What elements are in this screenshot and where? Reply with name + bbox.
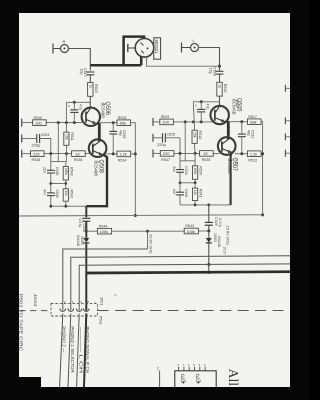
jack J-right (L channel input) xyxy=(182,43,199,53)
wire xyxy=(89,96,91,108)
capacitor C525 xyxy=(152,134,154,142)
thin wire DIN to right channel xyxy=(147,57,220,66)
svg-text:R540: R540 xyxy=(69,167,73,176)
svg-text:P501: P501 xyxy=(98,316,102,325)
ladder mid tie xyxy=(51,183,66,185)
stub page edge top xyxy=(284,85,286,92)
capacitor C513 48p xyxy=(241,122,243,134)
svg-text:4n7: 4n7 xyxy=(172,189,176,195)
capacitor C515 xyxy=(216,71,224,74)
thick wire DIN bottom stub xyxy=(140,57,143,66)
svg-text:D503: D503 xyxy=(213,234,217,242)
svg-text:100: 100 xyxy=(162,120,169,125)
junction dot right input xyxy=(218,65,221,68)
resistor R519 xyxy=(88,83,93,97)
svg-text:1N4148: 1N4148 xyxy=(76,235,80,247)
connector pins xyxy=(60,309,89,312)
resistor R544 xyxy=(86,230,97,232)
transistor Q506 xyxy=(82,108,100,126)
thick link Q505-Q507 xyxy=(227,121,230,139)
border black strips xyxy=(0,0,309,13)
svg-text:C525: C525 xyxy=(167,133,176,137)
wire left of IC box xyxy=(159,371,161,388)
resistor R533 xyxy=(235,153,248,155)
svg-text:C528: C528 xyxy=(184,189,188,197)
IC pins xyxy=(179,367,206,371)
node dots on base wire xyxy=(57,121,60,124)
svg-text:R536: R536 xyxy=(74,158,83,162)
paper background xyxy=(19,13,290,387)
transistor Q508 xyxy=(89,139,107,157)
capacitor C520 47p xyxy=(193,101,219,103)
stub input R510 xyxy=(21,119,23,127)
capacitor C533 48p xyxy=(112,123,114,132)
resistor R529 xyxy=(160,119,174,125)
svg-text:2: 2 xyxy=(157,367,159,371)
DIN label box xyxy=(154,38,161,59)
capacitor C536 xyxy=(82,217,90,219)
svg-text:68k: 68k xyxy=(250,120,256,125)
resistor R517 xyxy=(229,121,248,123)
svg-text:R527: R527 xyxy=(235,101,239,109)
ladder bottom tie right xyxy=(180,204,231,206)
svg-text:C530: C530 xyxy=(55,167,59,175)
resistor R541 vertical xyxy=(194,183,196,188)
resistor R542 vertical xyxy=(65,184,67,189)
svg-text:R538: R538 xyxy=(32,158,41,162)
stub page edge 2 xyxy=(284,117,286,124)
svg-text:BC549B: BC549B xyxy=(99,103,105,119)
capacitor C526 xyxy=(179,161,181,170)
resistor R515 xyxy=(217,82,222,96)
svg-text:0.47µ: 0.47µ xyxy=(218,218,222,227)
ladder mid tie right xyxy=(180,182,195,184)
svg-text:All: All xyxy=(226,369,241,387)
svg-text:100k: 100k xyxy=(100,229,108,234)
stub page edge 3 xyxy=(284,133,286,140)
svg-text:47p: 47p xyxy=(79,104,83,110)
resistor R534 xyxy=(106,153,117,155)
svg-text:R542: R542 xyxy=(69,190,73,199)
pin numbers xyxy=(64,300,96,305)
svg-text:15.1V: 15.1V xyxy=(222,247,226,255)
svg-text:15.8V (XX): 15.8V (XX) xyxy=(225,226,229,245)
svg-text:R544: R544 xyxy=(99,224,108,228)
capacitor C530 xyxy=(50,162,52,171)
wire jack to input corner xyxy=(69,49,91,71)
DIN connector MD501 xyxy=(128,39,154,58)
stub input R537 xyxy=(152,149,154,157)
svg-text:R513: R513 xyxy=(198,131,202,140)
svg-text:1k: 1k xyxy=(88,85,92,89)
base wire Q506 xyxy=(46,122,83,124)
wire 1 phono2 xyxy=(63,249,148,310)
svg-text:R528: R528 xyxy=(118,116,127,120)
svg-text:47p: 47p xyxy=(206,104,210,110)
resistor R511 vertical xyxy=(65,102,67,132)
svg-text:R529: R529 xyxy=(161,115,170,119)
svg-text:R515: R515 xyxy=(223,84,227,93)
wire xyxy=(219,74,221,82)
ladder top tie right xyxy=(180,160,195,162)
svg-text:R535: R535 xyxy=(202,158,211,162)
wire R544 to R543 xyxy=(112,230,185,232)
svg-text:R539: R539 xyxy=(199,166,203,175)
resistor R535 xyxy=(200,151,214,157)
svg-text:R519: R519 xyxy=(94,84,98,93)
capacitor C529 xyxy=(205,221,213,223)
svg-text:1N4148: 1N4148 xyxy=(217,236,221,248)
wire jack to input corner right xyxy=(199,48,220,71)
capacitor C524 xyxy=(21,135,23,143)
stub input R529 xyxy=(152,118,154,126)
stub page edge 4 xyxy=(284,150,286,157)
svg-text:220: 220 xyxy=(33,151,40,156)
svg-text:220: 220 xyxy=(163,151,170,156)
svg-text:1.2k: 1.2k xyxy=(250,152,257,157)
capacitor C517 xyxy=(87,72,95,75)
svg-text:R533: R533 xyxy=(248,158,257,162)
thick wire DIN loop xyxy=(90,37,144,66)
svg-text:BC549B: BC549B xyxy=(93,161,99,177)
svg-text:4n7: 4n7 xyxy=(43,190,47,196)
svg-text:12k: 12k xyxy=(64,191,68,197)
svg-text:R517: R517 xyxy=(248,115,257,119)
svg-text:C533: C533 xyxy=(122,130,126,138)
thick ground rail xyxy=(86,272,290,273)
wire node to ladder xyxy=(57,123,59,162)
svg-text:C513: C513 xyxy=(251,130,255,138)
capacitor C532 xyxy=(50,184,52,193)
svg-text:1k: 1k xyxy=(218,84,222,88)
svg-text:12k: 12k xyxy=(193,190,197,196)
wire 2 phono1 selector xyxy=(71,256,290,311)
svg-text:R541: R541 xyxy=(199,189,203,198)
capacitor C519 47p xyxy=(66,101,90,103)
wire xyxy=(219,96,221,106)
svg-text:R537: R537 xyxy=(161,158,170,162)
svg-text:C529: C529 xyxy=(214,217,218,225)
ladder top tie xyxy=(51,161,66,163)
wire 3 signal L xyxy=(79,264,290,311)
svg-text:Q508: Q508 xyxy=(98,160,105,174)
svg-text:0.7V: 0.7V xyxy=(234,159,238,167)
svg-text:220µ: 220µ xyxy=(157,142,166,147)
svg-text:R510: R510 xyxy=(34,116,43,120)
wire 4 thick signal R xyxy=(85,273,87,311)
svg-text:C526: C526 xyxy=(184,166,188,174)
thick link Q506-Q508 xyxy=(98,123,101,142)
jack J-left (R channel input) xyxy=(53,44,69,54)
svg-text:100: 100 xyxy=(35,120,42,125)
svg-text:——— L CH: ——— L CH xyxy=(78,327,83,373)
svg-text:22n: 22n xyxy=(172,166,176,172)
IC box xyxy=(175,371,216,389)
resistor R537 xyxy=(160,151,174,157)
resistor R543 xyxy=(184,228,198,234)
svg-text:R543: R543 xyxy=(185,224,194,228)
wire xyxy=(89,75,91,83)
svg-text:22n: 22n xyxy=(43,167,47,173)
resistor R540 vertical xyxy=(65,162,67,167)
thick emitter jog Q507 xyxy=(231,152,232,205)
resistor R510 xyxy=(33,120,47,126)
resistor R539 vertical xyxy=(194,161,196,166)
base wire Q507 xyxy=(174,152,220,154)
svg-text:PHONO SIGNAL R CH: PHONO SIGNAL R CH xyxy=(85,326,90,373)
diode D505 xyxy=(83,238,89,243)
svg-text:100k: 100k xyxy=(186,229,194,234)
svg-text:J502: J502 xyxy=(33,293,37,306)
svg-text:48p: 48p xyxy=(247,130,251,136)
svg-text:22.8V (XX): 22.8V (XX) xyxy=(148,234,152,254)
svg-text:0.47µ: 0.47µ xyxy=(78,219,82,228)
wire C525 to node xyxy=(165,138,180,154)
base wire Q505 xyxy=(173,121,212,123)
muting line left thick xyxy=(85,206,87,217)
dashed wire left xyxy=(19,310,51,312)
svg-text:68k: 68k xyxy=(120,121,126,126)
ladder bottom tie to emitter xyxy=(51,205,87,207)
base wire Q508 xyxy=(44,153,91,155)
svg-text:1: 1 xyxy=(114,294,118,296)
wire node to ladder right xyxy=(184,122,186,161)
svg-text:10µ: 10µ xyxy=(79,69,83,75)
svg-text:180k: 180k xyxy=(64,168,68,175)
svg-text:R534: R534 xyxy=(118,159,127,163)
svg-text:C532: C532 xyxy=(55,190,59,198)
resistor R538 xyxy=(31,151,45,157)
diode D503 xyxy=(206,238,212,243)
svg-text:R: R xyxy=(63,39,66,44)
resistor R536 xyxy=(72,151,86,157)
resistor R528 xyxy=(100,122,117,124)
svg-text:180k: 180k xyxy=(193,167,197,174)
svg-text:P502 TO TAPE CIRC: P502 TO TAPE CIRC xyxy=(19,294,24,351)
capacitor C528 xyxy=(179,183,181,192)
svg-text:C524: C524 xyxy=(41,133,50,137)
wire C524 to node xyxy=(40,139,51,154)
bus rail xyxy=(19,215,263,216)
svg-text:1.2k: 1.2k xyxy=(119,152,126,157)
svg-text:62: 62 xyxy=(76,151,80,156)
stub input R538 xyxy=(21,150,23,158)
dashed wire right xyxy=(98,310,290,312)
svg-text:R511: R511 xyxy=(70,132,74,140)
svg-text:15k: 15k xyxy=(193,132,197,138)
thick emitter jog Q508 xyxy=(86,154,107,206)
svg-text:MD501: MD501 xyxy=(154,40,159,55)
transistor Q507 xyxy=(218,137,236,155)
svg-text:1.4V: 1.4V xyxy=(227,127,231,135)
transistor Q505 xyxy=(211,106,229,124)
svg-text:220µ: 220µ xyxy=(32,143,41,148)
svg-text:62: 62 xyxy=(204,151,208,156)
muting line right xyxy=(208,205,210,223)
connector J501 dashed box xyxy=(51,303,98,316)
svg-text:PHONO 1 SELECTOR: PHONO 1 SELECTOR xyxy=(70,326,75,372)
IC internal marks xyxy=(179,374,201,385)
resistor R513 vertical xyxy=(193,102,194,130)
svg-text:10µ: 10µ xyxy=(209,68,213,74)
wire tap down xyxy=(147,231,149,249)
wire R517 to bus xyxy=(261,122,263,216)
wire R528 to bus xyxy=(131,123,136,216)
svg-text:PHONO 2 —: PHONO 2 — xyxy=(61,326,66,353)
svg-text:48p: 48p xyxy=(118,130,122,136)
svg-text:J501: J501 xyxy=(99,297,103,306)
svg-text:15k: 15k xyxy=(64,134,68,140)
